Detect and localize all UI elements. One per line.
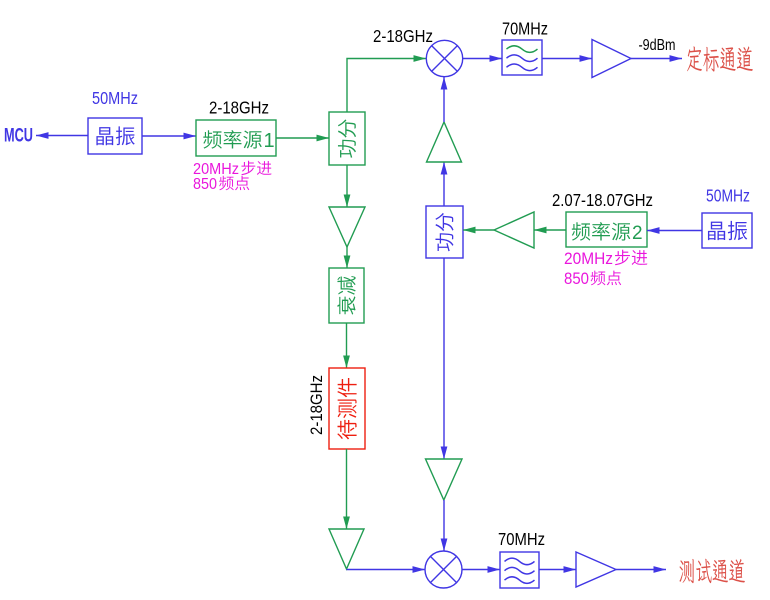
svg-text:20MHz: 20MHz: [564, 249, 613, 268]
svg-text:70MHz: 70MHz: [502, 19, 548, 39]
svg-text:2-18GHz: 2-18GHz: [209, 98, 269, 118]
svg-text:2: 2: [632, 223, 643, 244]
svg-text:2.07-18.07GHz: 2.07-18.07GHz: [552, 190, 653, 210]
svg-text:1: 1: [264, 130, 275, 152]
svg-text:70MHz: 70MHz: [498, 529, 545, 549]
svg-text:50MHz: 50MHz: [706, 186, 750, 206]
svg-text:2-18GHz: 2-18GHz: [373, 26, 433, 46]
svg-text:850: 850: [193, 176, 217, 193]
svg-text:2-18GHz: 2-18GHz: [308, 375, 326, 435]
svg-text:-9dBm: -9dBm: [639, 37, 676, 54]
svg-text:850: 850: [564, 269, 589, 288]
svg-text:50MHz: 50MHz: [92, 88, 138, 108]
svg-text:MCU: MCU: [4, 126, 33, 147]
